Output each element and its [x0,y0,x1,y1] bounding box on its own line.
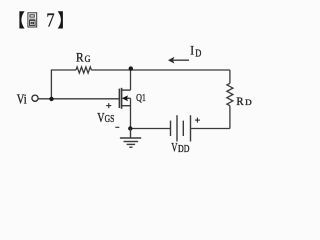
svg-text:GS: GS [105,113,115,125]
svg-text:G: G [85,54,91,65]
svg-text:Vi: Vi [17,92,27,107]
svg-text:R: R [76,50,84,64]
svg-text:DD: DD [178,144,189,155]
svg-text:D: D [195,47,201,59]
svg-text:I: I [190,44,194,58]
svg-text:7: 7 [46,10,54,32]
svg-text:D: D [245,98,252,107]
svg-text:V: V [97,111,104,126]
svg-text:Q1: Q1 [136,93,146,104]
svg-text:R: R [236,96,244,108]
